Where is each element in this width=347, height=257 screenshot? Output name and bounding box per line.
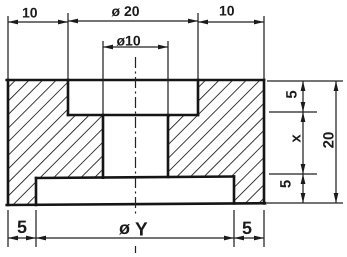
svg-text:x: x [288,134,305,143]
svg-text:10: 10 [22,5,38,21]
svg-text:5: 5 [242,218,252,238]
svg-text:Y: Y [135,220,148,241]
svg-text:10: 10 [219,3,235,19]
svg-text:5: 5 [284,90,301,98]
svg-text:5: 5 [17,217,27,237]
svg-text:ø: ø [119,218,130,238]
svg-text:ø 20: ø 20 [112,3,140,19]
svg-text:20: 20 [321,132,338,149]
svg-text:5: 5 [278,180,295,188]
svg-text:ø10: ø10 [117,33,141,49]
